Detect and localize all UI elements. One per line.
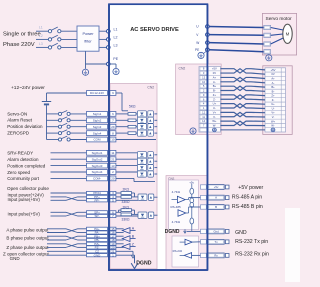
svg-text:V+: V+ (213, 110, 217, 114)
svg-text:SP-: SP- (94, 214, 99, 218)
wire PE to servo motor (209, 50, 264, 52)
svg-text:ZEROSPD: ZEROSPD (7, 131, 30, 136)
encoder table CN2 drive side (199, 67, 221, 133)
svg-text:2KΩ: 2KΩ (123, 205, 130, 209)
wires pulse group2 (116, 211, 121, 213)
svg-text:filter: filter (84, 39, 92, 44)
pin 12 cell (200, 111, 207, 114)
CN1 pin end Rx (225, 254, 229, 258)
switch SigIn4 (47, 132, 59, 134)
CN1 terminal Rx (201, 253, 207, 257)
svg-text:Z-: Z- (213, 97, 216, 101)
line driver B (116, 235, 124, 237)
CN1 pin end Gnd (225, 230, 229, 234)
motor pin U (264, 25, 271, 29)
wire pullup to A line (191, 194, 193, 197)
wire PE to internal earth (110, 63, 116, 65)
svg-text:L2: L2 (114, 36, 118, 40)
wire mains L1 filter to drive (99, 30, 107, 32)
wire mains L3 filter to drive (99, 46, 107, 48)
terminal COM- pin 20 (87, 176, 108, 181)
wire encoder pair V+/V- with twists (221, 112, 266, 116)
pin PE cell (200, 128, 207, 131)
svg-text:13: 13 (111, 164, 115, 168)
svg-text:A-: A- (213, 80, 216, 84)
wire Tx input (180, 241, 185, 243)
wire Alarm detection to terminal (51, 158, 87, 160)
wire input power 24V (51, 192, 87, 194)
pin 13 cell (200, 76, 207, 79)
svg-text:Alarm Reset: Alarm Reset (7, 118, 33, 123)
wire Community port to COM- (51, 177, 87, 179)
terminal SigOut3 pin 13 (87, 163, 108, 168)
svg-text:A phase pulse output: A phase pulse output (6, 227, 49, 232)
switch COM row (47, 139, 59, 141)
RS-485 white block (169, 180, 199, 230)
terminal L1 on drive (107, 29, 111, 33)
wire mains L2 left segment (36, 38, 48, 40)
svg-text:SigIn4: SigIn4 (93, 131, 102, 135)
svg-text:GND: GND (10, 256, 21, 261)
terminal COM pin 10 (87, 137, 108, 142)
svg-text:13: 13 (202, 75, 205, 79)
svg-text:10: 10 (202, 80, 205, 84)
svg-text:U-: U- (213, 106, 216, 110)
terminal PA- pin 16 (87, 231, 108, 234)
svg-text:0V: 0V (271, 72, 274, 76)
CN1 terminal Tx (201, 240, 207, 244)
svg-text:330Ω: 330Ω (122, 218, 131, 222)
svg-text:L1: L1 (39, 26, 43, 30)
svg-text:RS-232 Rx pin: RS-232 Rx pin (235, 251, 269, 257)
svg-text:W: W (196, 41, 199, 45)
svg-text:RS-232: RS-232 (173, 249, 183, 253)
wire +5V down (191, 184, 193, 188)
RS-232 white block (172, 236, 199, 267)
svg-text:0V: 0V (213, 71, 216, 75)
svg-text:DGND: DGND (136, 261, 152, 267)
svg-text:B phase pulse output: B phase pulse output (6, 235, 49, 240)
CN1 pin end B (225, 205, 229, 209)
resistor input SigIn2 (116, 119, 128, 121)
svg-text:20: 20 (111, 177, 115, 181)
servo motor box (262, 13, 296, 55)
svg-text:+5v: +5v (214, 185, 219, 189)
pin 6 cell (200, 98, 207, 101)
wire Zero speed to terminal (51, 171, 87, 173)
wire COM return (116, 139, 156, 141)
svg-text:SRV-READY: SRV-READY (7, 151, 33, 156)
wire battery plus to DC12-24V terminal (47, 92, 87, 94)
twisted pair output 1 (47, 228, 66, 230)
terminal PA+ pin 15 (87, 227, 108, 230)
terminal PZ- pin 20 (87, 246, 108, 249)
pin 1 cell (200, 106, 207, 109)
svg-text:Rx: Rx (214, 254, 218, 258)
wire SRV-READY to terminal (51, 152, 87, 154)
wire V pin to motor (271, 34, 283, 35)
resistor 2K pulse group2 (121, 209, 132, 212)
white corner area bottom right (285, 208, 300, 282)
wire W to servo motor (209, 43, 264, 44)
svg-text:GND: GND (235, 230, 247, 236)
svg-text:V-: V- (272, 115, 275, 119)
RS-232 Rx receiver (184, 253, 191, 259)
earth glyph last row right table (271, 128, 275, 132)
svg-text:A-: A- (272, 81, 275, 85)
svg-text:CN2: CN2 (147, 86, 154, 90)
RS-485 driver triangle (177, 196, 185, 203)
svg-text:W+: W+ (271, 119, 276, 123)
motor pin V (264, 33, 271, 37)
wire mains L1 to power filter (61, 30, 77, 32)
svg-text:U+: U+ (271, 102, 275, 106)
terminal GND pin 1 (87, 254, 108, 257)
RS-232 Tx driver (185, 239, 192, 245)
inner pink panel CN2 I/O area (110, 84, 157, 269)
svg-text:Open collector pulse: Open collector pulse (7, 186, 49, 191)
svg-text:Phase 220V: Phase 220V (3, 42, 35, 48)
wire SigOut3 opto output (154, 167, 157, 169)
wire battery minus bus (46, 105, 48, 139)
terminal PP+ pin 4 (87, 195, 108, 198)
pin 9 cell (200, 93, 207, 96)
svg-text:SigOut3: SigOut3 (92, 164, 103, 168)
optocoupler SigOut2 (116, 158, 137, 160)
svg-text:DGND: DGND (165, 229, 180, 235)
svg-text:SigOut4: SigOut4 (92, 170, 103, 174)
pin 11 cell (200, 115, 207, 118)
svg-text:Z+: Z+ (213, 93, 217, 97)
power filter box (77, 26, 99, 51)
AC servo drive enclosure (109, 4, 207, 270)
ground arrow DGND (131, 263, 138, 268)
svg-text:10: 10 (111, 138, 115, 142)
svg-text:29: 29 (111, 125, 115, 129)
twisted pair pulse input 1 (51, 196, 67, 198)
svg-text:12: 12 (202, 110, 205, 114)
svg-text:+5V power: +5V power (238, 185, 263, 191)
earth ground inside drive (113, 68, 119, 74)
svg-text:V+: V+ (271, 111, 275, 115)
svg-text:A+: A+ (271, 77, 275, 81)
terminal SigOut2 pin 21 (87, 157, 108, 162)
wire encoder pair B+/B- with twists (221, 86, 266, 90)
terminal PP24 pin 3 (87, 191, 108, 194)
svg-text:L1: L1 (114, 27, 118, 31)
svg-text:Input pulse(+5V): Input pulse(+5V) (8, 197, 41, 202)
svg-text:B-: B- (272, 89, 275, 93)
wire B to pulldown (191, 207, 193, 218)
wire Tx (192, 241, 200, 243)
DGND arrow glyph (184, 229, 186, 232)
wire CZ row (47, 250, 87, 252)
optocoupler pulse group2 (138, 212, 147, 218)
svg-text:GND: GND (94, 253, 102, 257)
terminal PP- pin 5 (87, 199, 108, 202)
wire SigIn4 opto output (154, 132, 157, 134)
wire opto group2 output (154, 214, 158, 216)
CN1 terminal B (201, 205, 207, 209)
svg-text:5KΩ: 5KΩ (129, 104, 136, 108)
twisted pair output 3 (47, 243, 66, 245)
svg-text:CN2: CN2 (179, 66, 186, 70)
terminal circle PE (206, 48, 210, 52)
encoder connector pink box CN2 (176, 64, 222, 135)
pulldown resistor 4.7K oval (190, 218, 194, 224)
terminal CZ pin 21 (87, 250, 108, 253)
wire mains L3 left segment (36, 46, 48, 48)
terminal L3 on drive (107, 46, 111, 50)
terminal PE on drive left (107, 62, 111, 66)
CN1 pin end A (225, 196, 229, 200)
svg-text:Community port: Community port (7, 176, 40, 181)
CN1 communication pink box (166, 176, 208, 270)
encoder table motor side (265, 68, 286, 132)
svg-text:W-: W- (213, 124, 216, 128)
svg-text:SigIn2: SigIn2 (93, 118, 102, 122)
svg-text:RS-485: RS-485 (171, 205, 182, 209)
svg-text:V-: V- (213, 115, 216, 119)
svg-text:+5V: +5V (212, 67, 217, 71)
svg-text:SigIn1: SigIn1 (93, 112, 102, 116)
battery 12-24V (42, 101, 51, 103)
svg-text:Z+: Z+ (271, 94, 275, 98)
pin 3 cell (200, 71, 207, 74)
motor symbol M (283, 24, 292, 43)
terminal PZ+ pin 19 (87, 242, 108, 245)
svg-text:2KΩ: 2KΩ (123, 188, 130, 192)
terminal circle V (206, 33, 210, 37)
terminal PB- pin 18 (87, 238, 108, 241)
svg-text:4.7KΩ: 4.7KΩ (172, 190, 181, 194)
svg-text:11: 11 (111, 151, 114, 155)
motor pin PE (264, 50, 271, 54)
svg-text:W+: W+ (212, 119, 217, 123)
terminal SigIn4 pin 8 (87, 131, 108, 136)
svg-text:Servo-ON: Servo-ON (7, 111, 27, 116)
wire opto group1 output (154, 196, 158, 198)
wire mains L1 left segment (36, 30, 48, 32)
svg-text:L2: L2 (39, 34, 43, 38)
svg-text:Position deviation: Position deviation (7, 124, 43, 129)
svg-text:Gnd: Gnd (213, 230, 219, 234)
wire COM- return under optocouplers (116, 177, 134, 179)
wire encoder pair A+/A- with twists (221, 77, 266, 81)
terminal circle W (206, 41, 210, 45)
resistor 330 pulse group1 (116, 196, 121, 198)
earth ground below filter (82, 69, 88, 75)
optocoupler SigIn3 (136, 126, 137, 128)
terminal SigIn3 pin 29 (87, 124, 108, 129)
twisted pair pulse input 2 (51, 211, 67, 213)
wire GND to DGND arrow (116, 254, 135, 256)
svg-text:B-: B- (213, 89, 216, 93)
svg-text:Alarm detection: Alarm detection (7, 157, 39, 162)
wire pulldown to DGND (191, 224, 193, 231)
resistor input SigIn3 (116, 126, 128, 128)
wire encoder pair W+/W- with twists (221, 121, 266, 125)
svg-text:Servo motor: Servo motor (266, 16, 293, 22)
motor pin W (264, 42, 271, 46)
wire W pin to motor (271, 38, 284, 44)
wire to opto group1 (132, 196, 139, 198)
optocoupler SigIn2 (136, 119, 137, 121)
pin 4 cell (200, 102, 207, 105)
terminal L2 on drive (107, 38, 111, 42)
line driver Z (116, 243, 124, 245)
wire mains L2 to power filter (61, 38, 77, 40)
svg-text:A+: A+ (213, 75, 217, 79)
resistor input SigIn4 (116, 132, 128, 134)
RS-485 receiver triangle (178, 210, 186, 217)
svg-text:PE: PE (195, 48, 199, 52)
terminal SigOut4 pin 2 (87, 170, 108, 175)
wire DGND to Gnd terminal (187, 230, 201, 232)
wire SigIn3 opto output (154, 126, 157, 128)
pin 14 cell (200, 119, 207, 122)
wire driver input (172, 199, 178, 201)
terminal DC12-24V pin 9 (87, 91, 108, 96)
svg-text:L3: L3 (114, 44, 118, 48)
svg-text:U+: U+ (213, 102, 217, 106)
CN1 pin end +5v (225, 185, 229, 189)
svg-text:COM: COM (94, 138, 102, 142)
wire encoder shield PE (221, 129, 266, 131)
svg-text:COM-: COM- (93, 177, 101, 181)
wire receiver (186, 212, 189, 214)
optocoupler SigIn1 (136, 113, 137, 115)
svg-text:Position completed: Position completed (7, 163, 46, 168)
terminal circle U (206, 25, 210, 29)
svg-text:Z-: Z- (272, 98, 275, 102)
switch SigIn3 (47, 126, 59, 128)
CN1 terminal +5v (201, 185, 207, 189)
CN1 terminal A (201, 195, 207, 199)
optocoupler SigOut4 (116, 171, 137, 173)
drive right edge (206, 4, 208, 270)
switch contact L3 (48, 46, 51, 49)
svg-text:B+: B+ (271, 85, 275, 89)
pullup resistor 4.7K oval (190, 188, 194, 194)
termination resistor ovals A-B (191, 197, 193, 199)
resistor input SigIn1 (116, 113, 128, 115)
svg-text:PP-: PP- (94, 198, 99, 202)
switch SigIn2 (47, 119, 59, 121)
svg-text:A: A (215, 196, 217, 200)
wire 2K join (132, 192, 135, 194)
pin 2 cell (200, 89, 207, 92)
pin 7 cell (200, 124, 207, 127)
svg-text:+12~24V power: +12~24V power (11, 85, 45, 91)
switch SigIn1 (47, 113, 59, 115)
terminal SP- pin 7 (87, 214, 108, 217)
svg-text:U-: U- (272, 106, 275, 110)
svg-text:330Ω: 330Ω (122, 200, 131, 204)
wire +24V feed to optocouplers (116, 92, 122, 94)
wire GND row (47, 254, 87, 256)
junction dot A (191, 197, 192, 198)
line driver A (116, 228, 124, 230)
earth ground below drive PE terminal (198, 52, 204, 58)
switch contact L2 (48, 38, 51, 41)
wire V to servo motor (209, 34, 264, 37)
svg-text:14: 14 (202, 119, 205, 123)
wire driver to A terminal (185, 199, 188, 201)
svg-text:SigOut1: SigOut1 (92, 151, 103, 155)
wire SigIn1 opto output (154, 113, 157, 115)
svg-text:L3: L3 (39, 42, 43, 46)
svg-text:Input pulse(+5V): Input pulse(+5V) (8, 211, 41, 216)
wire SigIn2 opto output (154, 119, 157, 121)
terminal SigOut1 pin 11 (87, 150, 108, 155)
optocoupler SigIn4 (136, 132, 137, 134)
svg-text:B: B (215, 205, 217, 209)
pin 8 cell (200, 67, 207, 70)
svg-text:4.7KΩ: 4.7KΩ (172, 220, 181, 224)
svg-text:Single or three: Single or three (3, 32, 41, 38)
svg-text:21: 21 (111, 157, 115, 161)
earth glyph last row left table (213, 128, 217, 132)
svg-text:Power: Power (82, 31, 94, 36)
wire SigOut1 opto output (154, 154, 157, 156)
wire mains L2 filter to drive (99, 38, 107, 40)
svg-text:DC12-24V: DC12-24V (90, 91, 104, 95)
svg-text:B+: B+ (213, 84, 217, 88)
svg-text:M: M (286, 32, 290, 37)
twisted pair output 2 (47, 235, 66, 237)
svg-text:W-: W- (271, 124, 274, 128)
earth ground below motor PE pin (266, 55, 272, 61)
wire U to servo motor (209, 27, 264, 28)
wire U pin to motor (271, 28, 284, 31)
wire SigOut2 opto output (154, 160, 157, 162)
svg-text:RS-232 Tx pin: RS-232 Tx pin (235, 239, 268, 245)
wire Position completed to terminal (51, 165, 87, 167)
wire Rx (192, 254, 201, 256)
svg-text:AC SERVO DRIVE: AC SERVO DRIVE (130, 27, 179, 33)
wire encoder pair U+/U- with twists (221, 104, 266, 108)
wire SigOut4 opto output (154, 173, 157, 175)
svg-text:SigIn3: SigIn3 (93, 125, 102, 129)
optocoupler SigOut3 (116, 165, 137, 167)
svg-text:Z phase pulse output: Z phase pulse output (6, 245, 49, 250)
wire B terminal (189, 206, 201, 208)
terminal PB+ pin 17 (87, 235, 108, 238)
svg-text:RS-485 A pin: RS-485 A pin (232, 195, 262, 201)
svg-text:RS-485 B pin: RS-485 B pin (232, 204, 263, 210)
optocoupler pulse group1 (138, 194, 147, 200)
terminal SigIn2 pin 7 (87, 118, 108, 123)
terminal SigIn1 pin 6 (87, 112, 108, 117)
svg-text:PE: PE (113, 57, 118, 61)
wire encoder pair +5V/0V with twists (221, 69, 266, 73)
wire mains L3 to power filter (61, 46, 77, 48)
drive bottom edge (108, 269, 207, 271)
wire Rx output (180, 254, 185, 256)
junction dot B (191, 206, 192, 207)
svg-text:Zero speed: Zero speed (7, 170, 30, 175)
earth ground below encoder table (190, 128, 196, 134)
pin 10 cell (200, 80, 207, 83)
resistor 330 pulse group2 (121, 213, 132, 216)
svg-text:SigOut2: SigOut2 (92, 157, 103, 161)
wire stub to earth below filter (85, 64, 87, 69)
svg-text:+5v: +5v (189, 180, 194, 184)
encoder feedback right pink box (263, 66, 292, 135)
wire encoder pair Z+/Z- with twists (221, 95, 266, 99)
resistor 2K pulse group1 (116, 192, 121, 194)
